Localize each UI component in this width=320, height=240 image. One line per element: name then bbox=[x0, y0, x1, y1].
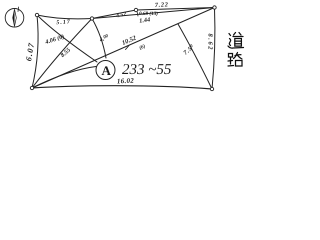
tick at P3 bbox=[137, 12, 138, 17]
diagonal P2-P6 bbox=[32, 19, 92, 89]
boundary edge P3-P4 bbox=[136, 8, 215, 11]
boundary edge P2-P3 bbox=[92, 10, 136, 19]
svg-text:7.22: 7.22 bbox=[155, 1, 169, 9]
compass symbol bbox=[5, 7, 24, 27]
vertex P1 bbox=[35, 13, 38, 16]
tick crossing diagonal near 10.52 bbox=[126, 46, 130, 50]
svg-text:4.06 (6): 4.06 (6) bbox=[44, 33, 66, 46]
svg-text:233 ~55: 233 ~55 bbox=[122, 62, 172, 78]
svg-text:8.62: 8.62 bbox=[207, 34, 214, 52]
diagonal P2-P4 bbox=[92, 8, 215, 19]
svg-text:6.07: 6.07 bbox=[24, 41, 36, 61]
line J to P5 bbox=[178, 24, 212, 89]
svg-text:A: A bbox=[102, 63, 112, 78]
svg-text:7.50: 7.50 bbox=[182, 43, 196, 57]
kanji 路 (road) bbox=[228, 53, 242, 67]
svg-text:8.55: 8.55 bbox=[59, 47, 72, 59]
boundary edge bottom P5-P6 bbox=[32, 86, 212, 89]
svg-text:(6): (6) bbox=[138, 43, 146, 51]
boundary edge top P1-P2 bbox=[37, 15, 92, 19]
svg-text:1.44: 1.44 bbox=[139, 16, 151, 24]
boundary edge right P4-P5 bbox=[212, 8, 215, 90]
vertex P3 bbox=[134, 8, 137, 11]
diagonal P1 to circle A bbox=[37, 15, 97, 62]
line P6 to circle A left bbox=[32, 67, 96, 89]
svg-text:5.17: 5.17 bbox=[56, 19, 71, 26]
vertex P4 bbox=[213, 6, 216, 9]
vertex P2 bbox=[90, 17, 93, 20]
boundary edge left P6-P1 bbox=[32, 15, 38, 88]
kanji 道 (road) bbox=[228, 33, 244, 49]
circle around A bbox=[96, 61, 115, 80]
vertex P5 bbox=[210, 87, 213, 90]
svg-text:4.52: 4.52 bbox=[115, 11, 127, 19]
diagonal P6-P4 bbox=[32, 8, 215, 89]
vertex P6 bbox=[30, 86, 33, 89]
line P2 to circle A top bbox=[92, 19, 106, 59]
